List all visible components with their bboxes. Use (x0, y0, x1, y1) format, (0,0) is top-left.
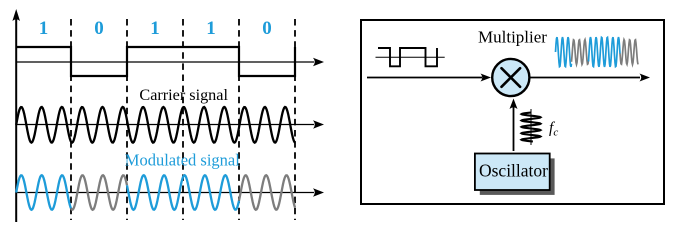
modulated bit0 burst (gray) (239, 175, 295, 210)
input square-wave icon baseline (376, 56, 445, 58)
modulated bit1 burst (blue) (16, 175, 71, 210)
svg-text:Carrier signal: Carrier signal (139, 86, 228, 104)
input wire to multiplier (367, 77, 482, 79)
bit boundary dashed line 3 (182, 19, 184, 220)
oscillator-to-multiplier wire (513, 107, 515, 151)
left amplitude axis (15, 14, 17, 222)
output wire (530, 77, 640, 79)
modulated time axis (16, 192, 314, 194)
bit boundary dashed line 1 (70, 19, 72, 220)
digital signal time axis (16, 61, 314, 63)
carrier frequency coil (sinusoid icon) (522, 113, 541, 142)
input square-wave icon (378, 48, 437, 66)
bit boundary dashed line 4 (238, 19, 240, 220)
svg-text:0: 0 (262, 18, 272, 39)
svg-text:1: 1 (206, 18, 216, 39)
carrier time axis (16, 124, 314, 126)
digital data square wave 10110 (16, 47, 295, 76)
svg-text:Multiplier: Multiplier (478, 28, 547, 47)
bit boundary dashed line 2 (126, 19, 128, 220)
block diagram frame (361, 20, 664, 204)
bit boundary dashed line 5 (294, 19, 296, 220)
oscillator box (475, 154, 550, 191)
svg-text:Oscillator: Oscillator (479, 161, 548, 181)
carrier sinusoid (16, 107, 295, 143)
output waveform blue burst 2 (589, 37, 621, 67)
svg-text:1: 1 (39, 18, 49, 39)
oscillator box shadow (480, 158, 555, 195)
modulated bits 1,1 burst (blue) (127, 175, 239, 210)
svg-text:1: 1 (150, 18, 160, 39)
multiplier (mixer) circle (492, 59, 529, 96)
output waveform blue burst 1 (556, 37, 572, 67)
multiplier X symbol (502, 68, 521, 87)
output waveform gray burst 1 (572, 40, 589, 65)
modulated bit0 burst (gray) (71, 175, 127, 210)
svg-text:0: 0 (94, 18, 104, 39)
output waveform gray burst 2 (620, 40, 638, 65)
svg-text:Modulated signal: Modulated signal (125, 151, 240, 170)
carrier frequency coil axis line (530, 109, 532, 145)
